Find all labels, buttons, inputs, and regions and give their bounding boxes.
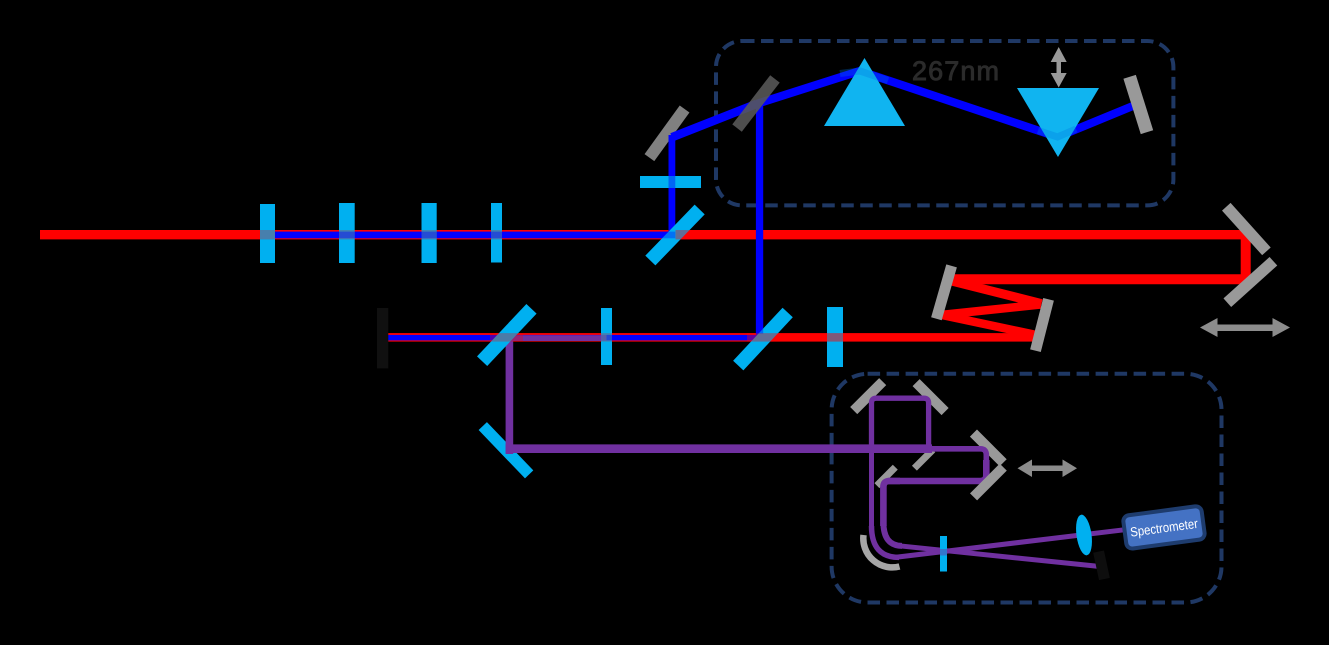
mirror M1 (small, box2 middle) xyxy=(912,447,935,470)
beamsplitter BS1 (lower row pick-off) xyxy=(477,304,537,366)
red beam: main horizontal line xyxy=(40,230,1251,239)
lens (cyan ellipse before spectrometer) xyxy=(1074,514,1095,557)
mirror RPU (box2 right pair upper) xyxy=(970,430,1007,467)
prism P2 (apex down) xyxy=(1017,88,1099,157)
dashed enclosure box2 (diagnostics / spectrometer) xyxy=(832,374,1222,603)
mirror BS3 (cyan fold mirror to box2) xyxy=(479,422,534,478)
purple beam: curve B at curved mirror xyxy=(883,522,902,546)
optic E2 xyxy=(339,203,355,263)
mirror TL (box2 top-left) xyxy=(850,378,886,414)
mirror R2 (right fold back) xyxy=(1223,257,1277,307)
curved mirror (focusing mirror, bottom of box2) xyxy=(863,535,899,567)
purple beam: vertical B with fold at M2 xyxy=(883,481,900,526)
optic W (horizontal waveplate above beamsplitter) xyxy=(640,176,701,188)
blue beam: vertical down from mirror B to lower row xyxy=(756,101,763,341)
purple beam: curve A at curved mirror xyxy=(872,526,900,557)
red beam: zigzag delay diagonal 2 xyxy=(942,305,1041,315)
optic E6 (plate on lower row right) xyxy=(827,307,843,367)
optic E4 (thin plate) xyxy=(491,203,502,263)
prism P1 (apex up) xyxy=(824,58,905,126)
purple beam: vertical BS1 to BS3 xyxy=(506,337,514,454)
translation arrow (vertical, above prism P2) xyxy=(1051,47,1067,88)
purple beam: lower row from crystal to BS1 xyxy=(506,335,606,341)
mirror A (fold mirror, top left of compressor) xyxy=(645,105,690,161)
mirror C (compressor end mirror) xyxy=(1123,75,1153,134)
translation arrow (horizontal, right delay stage) xyxy=(1200,318,1290,337)
purple beam: ray to beam dump 2 xyxy=(898,546,1100,567)
beam dump 1 (black block, lower left) xyxy=(377,308,388,368)
optic E1 (waveplate on top row) xyxy=(260,204,275,263)
purple beam: right fold down and lower row back xyxy=(888,460,986,481)
mirror B (pick-off mirror below compressor) xyxy=(732,75,779,131)
optic E3 xyxy=(422,203,437,263)
mirror TR (box2 top-right) xyxy=(913,379,949,415)
beam dump 2 (black block, near spectrometer) xyxy=(1093,550,1110,580)
beamsplitter BS-top (dichroic on top row) xyxy=(645,205,704,266)
purple beam: ray through slit and lens to spectrometer xyxy=(895,530,1124,558)
purple beam: long vertical A xyxy=(869,446,874,530)
blue beam: lower row leftward xyxy=(388,335,763,341)
blue beam: top row overlay xyxy=(268,232,675,239)
beam blend overlays inside optics xyxy=(260,71,1076,556)
translation arrow (horizontal, box2 delay) xyxy=(1018,460,1078,478)
red beam: zigzag delay diagonal 3 xyxy=(942,315,1038,335)
mirror R1 (top right fold) xyxy=(1222,203,1271,255)
blue beam: mirror A to mirror B xyxy=(672,104,757,137)
dashed enclosure box1 (prism compressor) xyxy=(716,41,1173,205)
blue beam: vertical up to mirror A xyxy=(669,135,676,238)
purple beam: thick row into box2 xyxy=(506,444,932,453)
mirror ZR (zigzag right) xyxy=(1030,298,1054,352)
blue beam: through prism pair to end mirror xyxy=(757,71,1137,137)
slit (cyan, box2) xyxy=(940,536,947,572)
beamsplitter BS2 (combiner lower row) xyxy=(733,308,793,371)
spectrometer box xyxy=(1123,506,1206,550)
purple beam: staple loop over entry row xyxy=(872,398,929,453)
purple beam: thin row to right fold pair xyxy=(930,449,986,462)
svg-text:267nm: 267nm xyxy=(912,56,1000,86)
red beam: right fold down and second row xyxy=(950,239,1246,279)
red beam: zigzag delay diagonal 1 xyxy=(950,281,1042,304)
mirror M2 (small, box2 middle-left) xyxy=(874,465,897,488)
mirror ZL (zigzag left) xyxy=(931,264,957,320)
optic E5 (crystal on lower row) xyxy=(601,308,612,365)
mirror RPL (box2 right pair lower) xyxy=(970,464,1007,501)
red beam: lower row to beam dump xyxy=(386,333,1038,342)
